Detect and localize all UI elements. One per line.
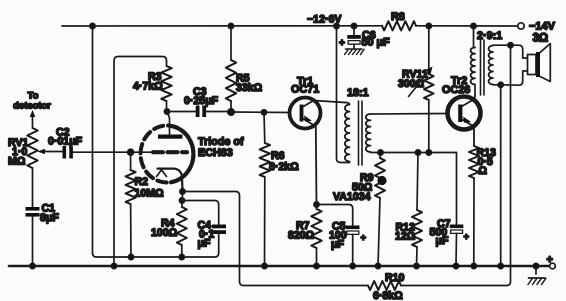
wire secondary return to rail (500, 85, 502, 266)
collector lead Tr2 (462, 96, 476, 107)
resistor R10 6.8k feedback (368, 281, 401, 290)
svg-text:4·7kΩ: 4·7kΩ (133, 81, 163, 93)
wire R10 to speaker tap (401, 45, 511, 285)
junction primary feed (334, 23, 339, 28)
grid dashed electrode (153, 150, 187, 154)
svg-text:OC71: OC71 (291, 84, 319, 96)
potentiometer RV1 1.0M (27, 128, 37, 168)
svg-text:3Ω: 3Ω (533, 33, 549, 45)
thermistor R9 50 VA1034 (379, 153, 382, 159)
wire secondary bottom return (493, 84, 501, 86)
svg-text:R10: R10 (385, 272, 405, 284)
capacitor C6 50uF decoupler (353, 26, 355, 35)
wire anode node to C3 (167, 111, 196, 113)
resistor R2 10M grid leak (130, 152, 132, 170)
svg-text:−14V: −14V (529, 21, 556, 33)
wire secondary top to speaker (493, 45, 528, 58)
core T2 (481, 40, 485, 95)
capacitor C4 0.1uF (212, 225, 226, 229)
wire bottom common rail (9, 265, 549, 268)
junction R2 bottom (128, 254, 133, 259)
svg-text:VA1034: VA1034 (333, 191, 371, 203)
wire C3 to base node (206, 111, 231, 113)
junction R9 bottom rail (375, 263, 380, 268)
wire anode lead (167, 112, 170, 135)
svg-text:0·01μF: 0·01μF (48, 136, 83, 148)
resistor R5 33k (230, 26, 232, 60)
wire secondary top to Tr2 base (371, 113, 448, 116)
svg-text:50 μF: 50 μF (362, 37, 391, 49)
RV11 arrow (409, 71, 430, 97)
primary winding T2 (474, 26, 476, 48)
junction R7 bottom rail (314, 263, 319, 268)
wire input arrow up (32, 114, 34, 128)
junction Tr1 emitter node (314, 202, 319, 207)
wire C1 to rail (32, 217, 34, 266)
junction R6 top (261, 110, 266, 115)
svg-text:820Ω: 820Ω (288, 230, 315, 242)
wire R3 bottom to anode node (166, 101, 168, 112)
resistor R6 8.2k (263, 112, 266, 143)
wire RV1 bottom to C1 (32, 168, 34, 207)
svg-text:R2: R2 (135, 176, 149, 188)
junction R9 top (378, 150, 383, 155)
wire emitter node to C5 (317, 205, 353, 226)
svg-text:+: + (547, 254, 553, 266)
junction feedback tap (508, 43, 513, 48)
emitter lead Tr2 with arrow (462, 120, 474, 147)
ground symbol bottom right (535, 266, 537, 274)
svg-text:33kΩ: 33kΩ (236, 82, 263, 94)
resistor R7 820 (311, 209, 321, 248)
wire C5 to rail (352, 234, 354, 266)
wire secondary bottom bias line (371, 151, 457, 154)
svg-text:300Ω: 300Ω (398, 78, 425, 90)
junction R6 bottom rail (262, 263, 267, 268)
wire cathode feedback stub (183, 192, 369, 286)
collector lead Tr1 (303, 101, 346, 108)
emitter lead Tr1 with arrow (303, 119, 317, 205)
wire primary feed from rail (337, 26, 350, 163)
svg-text:0·25μF: 0·25μF (184, 95, 219, 107)
junction anode node (164, 109, 169, 114)
capacitor C3 0.25uF (196, 106, 200, 118)
cathode electrode (158, 169, 183, 191)
triode V1 ECH83 envelope (141, 126, 194, 183)
junction cathode node (180, 189, 185, 194)
svg-text:ECH83: ECH83 (198, 147, 233, 159)
wire cathode return to C4 bottom (179, 234, 219, 257)
svg-text:Ω: Ω (479, 165, 488, 177)
wire R3 top elbow (114, 57, 167, 267)
secondary winding T1 (366, 114, 371, 152)
junction R12 bottom rail (414, 263, 419, 268)
junction base node (228, 109, 234, 115)
junction R13 bottom rail (471, 263, 476, 268)
core T1 (359, 101, 363, 165)
svg-text:μF: μF (331, 239, 344, 251)
svg-text:detector: detector (13, 101, 51, 112)
svg-text:μF: μF (436, 235, 449, 247)
junction R4 bottom (179, 254, 184, 259)
junction R5 top rail (228, 23, 233, 28)
wire C2 to grid (73, 151, 153, 153)
capacitor C5 100uF (346, 226, 360, 230)
terminal -14V (518, 23, 524, 29)
svg-text:6·8kΩ: 6·8kΩ (373, 290, 403, 301)
wire C7 to rail (455, 233, 458, 266)
junction R12 top (415, 150, 420, 155)
ground symbol C6 (346, 48, 363, 50)
svg-text:OC26: OC26 (442, 84, 470, 96)
svg-text:R8: R8 (391, 11, 405, 23)
resistor R8 (382, 21, 416, 30)
resistor R13 0.5 (469, 146, 479, 178)
wire cathode return riser (rail to elbow) (93, 26, 180, 257)
wire bias line to C7 (456, 153, 458, 225)
wire C6 to ground (353, 44, 355, 49)
wire cathode to R4 (181, 192, 184, 208)
capacitor C7 500uF (450, 225, 464, 229)
svg-text:+: + (361, 233, 367, 244)
resistor R4 100 cathode bias (177, 207, 187, 245)
junction C6 rail (351, 23, 356, 28)
terminal + battery positive (533, 263, 538, 268)
svg-text:10MΩ: 10MΩ (135, 188, 165, 200)
junction C1-rail (30, 263, 35, 268)
svg-text:8μF: 8μF (40, 212, 59, 224)
junction R3 supply to rail (111, 263, 116, 268)
capacitor C1 8uF (26, 207, 40, 211)
secondary winding T2 (489, 46, 493, 85)
svg-text:+: + (464, 232, 470, 243)
svg-text:18:1: 18:1 (347, 87, 369, 99)
svg-text:100Ω: 100Ω (151, 227, 178, 239)
wire top supply rail (62, 25, 518, 27)
svg-text:MΩ: MΩ (8, 156, 26, 168)
junction RV11 bottom (426, 150, 431, 155)
resistor R12 12 (417, 153, 418, 211)
svg-text:8·2kΩ: 8·2kΩ (269, 161, 299, 173)
junction grid wire R2 (128, 149, 134, 155)
junction RV11 top rail (426, 23, 431, 28)
heater filament (157, 170, 167, 177)
wire base node to Tr1 (231, 111, 290, 114)
junction T2 primary feed (471, 23, 476, 28)
wire cathode to C4 (182, 201, 219, 225)
svg-text:μF: μF (198, 238, 211, 250)
junction top rail feed (90, 23, 95, 28)
svg-text:12Ω: 12Ω (395, 231, 416, 243)
preset RV11 300 (428, 26, 430, 74)
wire RV1 wiper arrow (43, 151, 62, 153)
resistor R3 4.7k anode load (166, 62, 168, 66)
svg-text:+: + (339, 38, 345, 49)
capacitor C2 0.01uF (63, 146, 67, 159)
primary winding T1 (345, 105, 350, 162)
anode plate (158, 135, 183, 139)
